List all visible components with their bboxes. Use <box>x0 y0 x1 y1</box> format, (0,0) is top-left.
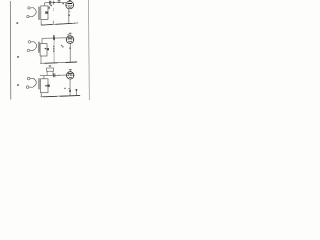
transformer T2 core <box>37 42 40 53</box>
resistor R2 cathode blob <box>68 15 69 16</box>
resistor R4 cathode blob <box>69 48 71 49</box>
margin label 30 <box>17 84 19 86</box>
wire J1 to T1 <box>30 7 33 9</box>
resistor R1 grid leak box <box>58 0 60 2</box>
node B junction <box>54 38 55 39</box>
tube V1 plate <box>67 3 72 5</box>
wire V1 cathode lead <box>68 9 70 24</box>
node dot on bus <box>74 23 75 24</box>
page left border line <box>9 1 12 100</box>
wire R5 left leg <box>46 71 48 75</box>
wire T2 top riser <box>41 38 43 43</box>
capacitor C1b bar <box>52 1 54 5</box>
node blob at T1 right edge <box>45 11 48 13</box>
resistor R6 cathode blob <box>69 90 71 92</box>
transformer T2 secondary box <box>40 44 47 56</box>
tube V1 cathode <box>68 6 71 9</box>
wire grid leak down stage2 <box>53 40 55 63</box>
transformer T3 primary winding <box>32 78 36 87</box>
wire V3 cathode lead <box>69 79 71 96</box>
margin label 10 <box>16 22 18 24</box>
wire J6 to T3 <box>29 86 32 88</box>
node blob at T3 right edge <box>47 85 50 87</box>
terminal J4 <box>27 49 30 52</box>
capacitor C1 <box>50 1 51 5</box>
ground bar left <box>41 24 52 27</box>
node blob at T2 right edge <box>47 48 50 50</box>
terminal J1 <box>28 7 30 9</box>
label 2 at T1 <box>49 7 50 9</box>
wire J5 to T3 <box>30 77 33 79</box>
node dot inside T3 box <box>45 85 47 87</box>
supply terminal B3 <box>69 69 72 71</box>
wire V2 plate lead <box>69 33 71 36</box>
transformer T2 primary winding <box>33 42 37 51</box>
wire cathode tick <box>68 87 70 89</box>
label 35 <box>64 88 66 89</box>
wire V2 cathode lead <box>69 43 71 62</box>
wire grid leak dashes <box>53 8 55 11</box>
wire tick to ground bus <box>52 21 54 25</box>
terminal J6 <box>26 86 29 89</box>
tube V3 plate <box>68 73 73 75</box>
tube V2 envelope <box>66 36 74 44</box>
terminal J5 <box>27 77 30 80</box>
wire V1 plate lead <box>69 0 71 2</box>
page right border line <box>88 0 91 100</box>
terminal J2 <box>27 15 29 17</box>
tube V3 envelope <box>67 72 74 79</box>
supply terminal B1 <box>69 0 72 1</box>
transformer T1 primary winding <box>32 8 36 17</box>
wire stage3 top bus <box>40 74 67 77</box>
label 15 above C2 <box>53 34 54 37</box>
wire T2 bottom riser <box>40 56 42 63</box>
tube V2 plate <box>68 37 73 39</box>
node A junction <box>54 2 55 3</box>
ground bar left stage2 <box>45 62 58 65</box>
ground bar right stage2 <box>66 61 78 64</box>
wire stage1 top bus <box>44 1 65 4</box>
transformer T3 core <box>38 78 39 89</box>
ground bar left stage3 <box>43 95 57 98</box>
wire stage2 ground bus <box>40 62 77 64</box>
tube V2 cathode <box>69 40 72 43</box>
resistor R2 cathode tick <box>69 10 70 12</box>
ground bar right stage3 <box>60 95 80 98</box>
tube V3 cathode <box>69 76 72 79</box>
supply terminal B2 <box>69 32 72 34</box>
output terminal dot <box>75 89 77 91</box>
wire J2 to T1 <box>29 16 32 18</box>
wire stage3 ground bus <box>41 95 81 97</box>
terminal J3 <box>28 41 31 44</box>
wire T3 bottom riser <box>40 93 42 97</box>
label 75 above R5 <box>49 65 51 66</box>
node dot inside T2 box <box>45 48 46 49</box>
wire output to bus <box>75 91 77 96</box>
capacitor C2 <box>54 36 55 40</box>
wire T1 top riser <box>43 3 45 6</box>
label 3 <box>62 3 64 4</box>
wire T1 bottom riser <box>40 19 42 25</box>
resistor R3 grid leak dashes <box>53 46 55 52</box>
wire stage1 ground bus <box>41 23 78 25</box>
margin label 20 <box>17 56 19 58</box>
tube V1 grid <box>66 4 73 6</box>
tube V1 envelope <box>66 1 74 9</box>
transformer T1 core <box>38 7 41 20</box>
wire V3 plate lead <box>69 70 71 72</box>
label 6 <box>50 5 52 7</box>
transformer T3 secondary box <box>41 79 48 93</box>
transformer T1 secondary box <box>41 6 48 20</box>
wire R5 right leg <box>52 71 54 75</box>
label 5 <box>61 45 64 48</box>
resistor R5 grid leak box <box>47 68 54 71</box>
node C junction <box>58 75 59 76</box>
wire J3 to T2 <box>31 41 34 43</box>
capacitor C3 <box>54 73 55 77</box>
label 13 <box>68 34 69 35</box>
wire stage2 top bus <box>42 37 66 40</box>
wire T3 top riser <box>43 76 45 79</box>
wire J4 to T2 <box>30 49 33 51</box>
tube V2 grid <box>66 39 73 41</box>
ground bar right <box>55 23 72 24</box>
tube V3 grid <box>67 75 74 77</box>
